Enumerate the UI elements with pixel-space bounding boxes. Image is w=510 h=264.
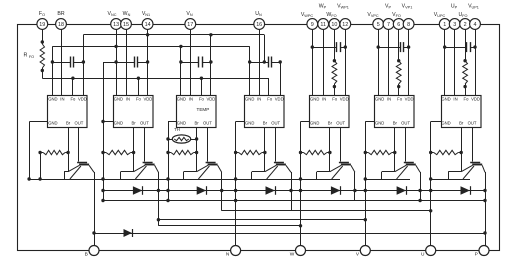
thermistor TH [172,135,190,143]
junction TH left [166,137,169,140]
row E bus [158,219,365,221]
junction row E at V [364,218,367,221]
svg-text:TEMP: TEMP [197,107,210,112]
pin 16 UN lead to U4 IN [259,24,261,96]
svg-text:Fo: Fo [136,97,142,102]
junction row A [429,177,432,180]
svg-text:GND: GND [177,121,186,126]
pin circle 5 VVPC [373,19,384,30]
junction row B [483,189,486,192]
junction VNC cap row [114,60,117,63]
wire U1 GND [52,46,54,95]
svg-text:TH: TH [174,127,180,132]
resistor R7 [434,150,459,154]
junction TH right [195,137,198,140]
junction R1 row A [38,177,41,180]
svg-text:Br: Br [459,121,464,126]
junction row G left [92,231,95,234]
diode D4 [266,186,276,195]
terminal P [479,246,489,256]
junction C4 left [248,60,251,63]
wire U4 GND from GND rail [249,46,251,95]
wire R3 Br pin [196,128,198,153]
wire U-side C7 FO lead upper [465,24,467,61]
svg-text:OUT: OUT [271,121,280,126]
junction row A [234,177,237,180]
wire U6 GND exit to V [365,121,374,123]
junction row C [483,199,486,202]
svg-text:IN: IN [322,97,326,102]
junction C2 right [146,60,149,63]
junction R6 res left [364,151,367,154]
svg-text:GND: GND [48,121,57,126]
diode bus row B [103,190,485,192]
wire V-side C6 VP1 lead [408,24,410,96]
junction W-side C5 res bottom [333,85,336,88]
wire U1 VDD [83,35,85,96]
junction R2 res left [101,151,104,154]
gate drive IC U6 [375,96,415,128]
junction row B [166,189,169,192]
wire V-side C6 VPC lead [378,24,380,96]
svg-text:16: 16 [256,22,262,28]
junction Fo [41,40,44,43]
diode D6 [397,186,407,195]
wire U3 GND [180,46,182,95]
svg-text:14: 14 [145,22,151,28]
transistor Q1 brake [78,128,80,162]
wire TH right [191,139,197,141]
svg-text:Fo: Fo [464,97,470,102]
svg-text:GND: GND [177,97,186,102]
junction Fo rail [137,77,140,80]
junction row D at U [429,209,432,212]
junction VNC GND rail [114,45,117,48]
svg-text:15: 15 [123,22,129,28]
svg-text:9: 9 [311,22,314,28]
svg-text:OUT: OUT [336,121,345,126]
wire Fo stub [201,78,203,95]
row D bus [222,210,431,212]
wire U1 GND exit [30,121,48,123]
diode D2 [133,186,143,195]
pin circle 18 BR [56,19,67,30]
transistor Q6 V-high [405,128,407,162]
junction R3 res right [195,151,198,154]
svg-text:VDD: VDD [143,97,152,102]
svg-text:GND: GND [375,121,384,126]
gate drive IC U5 [310,96,350,128]
svg-text:4: 4 [474,22,477,28]
junction R6 res right [393,151,396,154]
diode D1 brake [124,229,133,237]
resistor R1 [43,150,65,154]
svg-text:GND: GND [114,121,123,126]
pin circle 15 WN [121,19,132,30]
terminal U [426,246,436,256]
junction row B [299,189,302,192]
svg-text:11: 11 [320,22,326,28]
svg-text:10: 10 [331,22,337,28]
wire U4 VDD [280,62,282,96]
wire U3 VDD [210,35,212,96]
resistor RFO [40,44,44,68]
pin circle 11 WP [318,19,329,30]
junction VN1 VDD rail [146,33,149,36]
svg-text:8: 8 [407,22,410,28]
junction U3 GND rail [179,45,182,48]
junction row A [364,177,367,180]
svg-text:GND: GND [310,121,319,126]
junction V-side C6 res top [397,59,400,62]
svg-text:GND: GND [245,97,254,102]
pin circle 14 VN1 [142,19,153,30]
svg-text:R: R [24,53,28,59]
wire Fo stub [72,78,74,95]
svg-text:OUT: OUT [74,121,83,126]
wire Fo rail corner to U4 [268,78,270,95]
emitter bus row A [29,179,340,181]
wire U-side C7 VPC lead [444,24,446,96]
Fo rail [42,78,268,80]
brake diode row G [94,233,485,235]
svg-text:GND: GND [114,97,123,102]
resistor W-side C5 RFO [332,61,337,84]
svg-text:17: 17 [187,22,193,28]
junction row G right [483,231,486,234]
svg-text:VDD: VDD [275,97,284,102]
junction R4 res left [234,151,237,154]
junction row B [418,189,421,192]
svg-text:Fo: Fo [199,97,205,102]
svg-text:6: 6 [397,22,400,28]
pin 14 VN1 lead to U2 VDD [147,24,149,96]
junction R7 res left [429,151,432,154]
junction C3 right [209,60,212,63]
GND rail [52,46,249,48]
svg-text:VDD: VDD [78,97,87,102]
svg-text:GND: GND [441,121,450,126]
wire W-side C5 P input lead [323,24,325,96]
junction row C [234,199,237,202]
pin circle 12 VWP1 [340,19,351,30]
wire U-side C7 VP1 lead [475,24,477,96]
svg-text:VDD: VDD [405,97,414,102]
pin 13 VNC lead [116,24,118,96]
row C bus [103,200,485,202]
junction R5 res right [328,151,331,154]
wire R7 Br pin [461,128,463,153]
transistor Q5 W-high [340,128,342,162]
svg-text:W: W [290,251,295,257]
svg-text:P: P [475,251,478,257]
wire R1 Br pin [68,128,70,153]
svg-text:N: N [226,251,230,257]
pin circle 7 VP [383,19,394,30]
svg-text:13: 13 [113,22,119,28]
svg-text:IN: IN [453,97,457,102]
transistor Q7 U-high [472,128,474,162]
junction row B [429,189,432,192]
junction C4 mid [263,60,266,63]
wire V-side C6 P input lead [388,24,390,96]
junction U-side C7 res top [463,59,466,62]
capacitor U-side C7 [443,45,446,48]
wire R6 Br pin [394,128,396,153]
svg-text:19: 19 [39,22,45,28]
wire U-side C7 P input lead [454,24,456,96]
svg-text:Fo: Fo [267,97,273,102]
junction row A [299,177,302,180]
wire RFO to Fo rail [42,68,44,78]
junction row C [166,199,169,202]
capacitor V-side C6 [377,45,380,48]
junction C3 left [179,60,182,63]
svg-text:Br: Br [66,121,71,126]
junction U-side C7 res bottom [463,85,466,88]
diode D7 [461,186,471,195]
svg-text:3: 3 [453,22,456,28]
wire R4 Br pin [264,128,266,153]
svg-text:GND: GND [375,97,384,102]
resistor R6 [368,150,392,154]
capacitor C4 [250,62,269,64]
junction row B [353,189,356,192]
junction R3 res left [166,151,169,154]
junction row A [101,177,104,180]
junction R4 res right [263,151,266,154]
svg-text:VDD: VDD [206,97,215,102]
svg-text:VDD: VDD [340,97,349,102]
junction row F at W [299,224,302,227]
junction row B [289,189,292,192]
transistor Q3 V-low [207,128,209,162]
transistor Q2 W-low [144,128,146,162]
pin circle 9 VWPC [307,19,318,30]
svg-text:Fo: Fo [332,97,338,102]
junction V-side C6 res bottom [397,85,400,88]
svg-text:OUT: OUT [401,121,410,126]
svg-text:OUT: OUT [140,121,149,126]
row F bus [158,225,300,227]
wire U5 GND exit to W [301,121,310,123]
capacitor C2 [116,62,134,64]
wire W-side C5 FO lead lower [334,84,336,96]
junction row C [101,199,104,202]
svg-text:VDD: VDD [471,97,480,102]
resistor V-side C6 RFO [396,61,401,84]
svg-text:5: 5 [377,22,380,28]
wire U3 GND exit [168,121,176,123]
wire W-side C5 FO lead upper [334,24,336,61]
pin circle 19 Fo [37,19,48,30]
wire R2 Br pin [133,128,135,153]
resistor R2 [106,150,131,154]
svg-text:Br: Br [263,121,268,126]
wire V-side C6 FO lead lower [398,84,400,96]
junction row A [166,177,169,180]
junction R7 res right [460,151,463,154]
svg-text:7: 7 [387,22,390,28]
gate drive IC U4 [245,96,285,128]
svg-text:GND: GND [310,97,319,102]
svg-text:BR: BR [57,11,64,17]
junction row B [101,189,104,192]
wire VNC branch to left bus [103,62,116,64]
svg-text:OUT: OUT [468,121,477,126]
junction row E left [157,218,160,221]
resistor R5 [304,150,327,154]
wire TH left [168,139,172,141]
svg-text:Br: Br [132,121,137,126]
svg-text:U: U [421,251,425,257]
junction U3 VDD rail [209,33,212,36]
transistor Q4 U-low [275,128,277,162]
gate drive IC U3 [177,96,217,128]
junction R2 res right [132,151,135,154]
junction row B [234,189,237,192]
pin circle 16 UN [254,19,265,30]
diode D3 [197,186,207,195]
svg-text:B: B [85,251,88,257]
left vertical bus [103,62,105,201]
junction row B [220,189,223,192]
gate drive IC U2 [114,96,154,128]
svg-text:IN: IN [387,97,391,102]
junction Fo rail [71,77,74,80]
pin 15 WN lead to U2 IN [126,24,128,96]
pin circle 8 VVP1 [403,19,414,30]
wire W-side C5 VPC lead [312,24,314,96]
junction Fo rail [200,77,203,80]
junction R5 res left [299,151,302,154]
VDD rail [83,34,264,36]
gate drive IC U7 [442,96,482,128]
svg-text:Br: Br [393,121,398,126]
junction row B [157,189,160,192]
wire Fo stub [138,78,140,95]
resistor R3 [171,150,194,154]
wire V-side C6 FO lead upper [398,24,400,61]
pin circle 1 VUPC [439,19,450,30]
svg-text:GND: GND [48,97,57,102]
junction row C [418,199,421,202]
wire VDD rail corner to C4 [264,35,266,62]
svg-text:18: 18 [58,22,64,28]
capacitor C1 [51,60,54,63]
gate drive IC U1 [48,96,88,128]
terminal B [89,246,99,256]
pin 19 Fo lead [42,24,44,44]
wire U2 GND exit [103,121,113,123]
terminal N [231,246,241,256]
terminal W [296,246,306,256]
svg-text:IN: IN [126,97,130,102]
svg-text:Fo: Fo [397,97,403,102]
junction row A [27,177,30,180]
junction U2 exit [101,120,104,123]
svg-text:FO: FO [29,55,34,59]
pin circle 10 WFO [329,19,340,30]
svg-text:IN: IN [189,97,193,102]
capacitor C3 [181,62,199,64]
pin circle 17 VN [185,19,196,30]
terminal V [360,246,370,256]
junction RFO bottom [41,69,44,72]
svg-text:IN: IN [257,97,261,102]
svg-text:Br: Br [328,121,333,126]
wire R5 Br pin [329,128,331,153]
svg-text:GND: GND [441,97,450,102]
wire U7 GND exit to U [431,121,441,123]
wire U4 GND exit to N [236,121,245,123]
junction W-side C5 res top [333,59,336,62]
svg-text:Fo: Fo [70,97,76,102]
junction row B [364,189,367,192]
svg-text:2: 2 [464,22,467,28]
junction C4 right [279,60,282,63]
pin circle 2 UFO [460,19,471,30]
diode D5 [331,186,341,195]
svg-text:Br: Br [195,121,200,126]
resistor R4 [239,150,262,154]
pin circle 4 VUP1 [470,19,481,30]
svg-text:OUT: OUT [203,121,212,126]
pin 18 BR lead to U1 IN [61,24,63,96]
pin circle 3 UP [449,19,460,30]
pin circle 6 VFO [393,19,404,30]
junction R1 res left [38,151,41,154]
wire U-side C7 FO lead lower [465,84,467,96]
wire W-side C5 VP1 lead [345,24,347,96]
wire P bus vertical [485,172,487,245]
resistor U-side C7 RFO [463,61,468,84]
junction R1 res right [66,151,69,154]
capacitor W-side C5 [311,45,314,48]
pin 17 VN lead to U3 IN [190,24,192,96]
svg-text:1: 1 [443,22,446,28]
pin circle 13 VNC [111,19,122,30]
svg-text:GND: GND [245,121,254,126]
svg-text:IN: IN [60,97,64,102]
svg-text:12: 12 [342,22,348,28]
wire R1 left down [40,153,42,180]
